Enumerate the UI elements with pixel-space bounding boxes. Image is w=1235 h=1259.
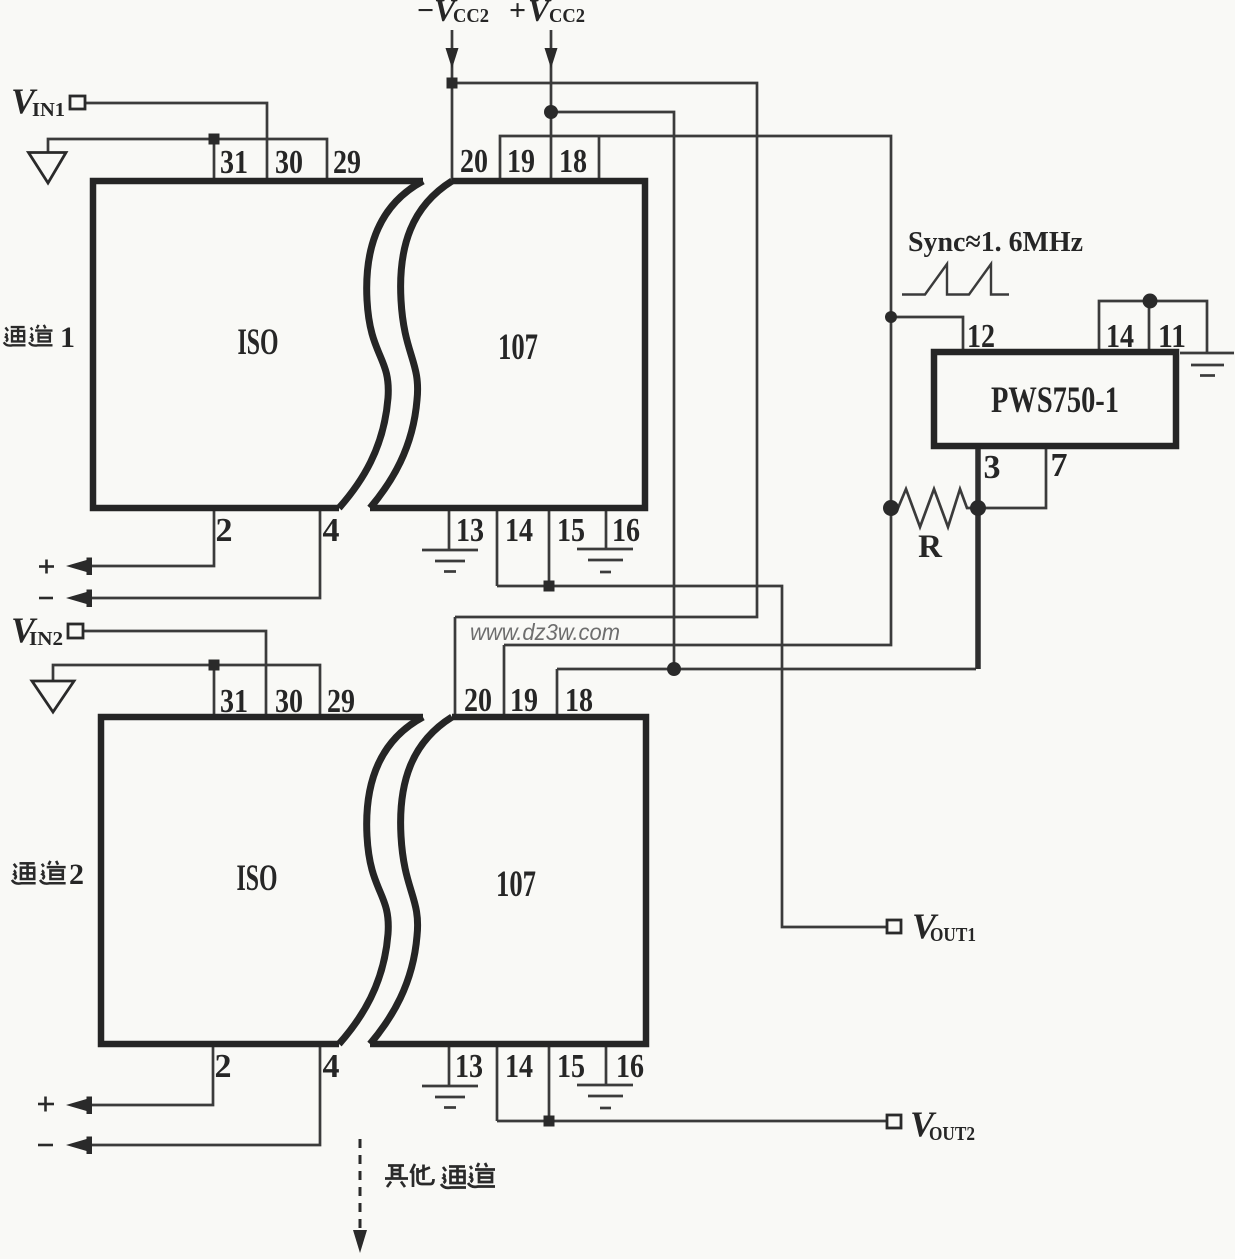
svg-text:12: 12 bbox=[967, 318, 995, 355]
svg-text:13: 13 bbox=[455, 1048, 483, 1085]
svg-text:OUT2: OUT2 bbox=[929, 1123, 975, 1145]
svg-text:31: 31 bbox=[220, 144, 248, 181]
svg-text:107: 107 bbox=[496, 864, 536, 905]
svg-text:29: 29 bbox=[333, 144, 361, 181]
svg-text:20: 20 bbox=[464, 682, 492, 719]
svg-text:CC2: CC2 bbox=[549, 5, 585, 27]
svg-text:IN2: IN2 bbox=[29, 628, 63, 650]
svg-text:11: 11 bbox=[1158, 318, 1186, 355]
svg-text:ISO: ISO bbox=[237, 858, 278, 899]
svg-text:4: 4 bbox=[323, 512, 340, 549]
svg-text:ISO: ISO bbox=[238, 322, 279, 363]
svg-text:18: 18 bbox=[565, 682, 593, 719]
svg-text:19: 19 bbox=[507, 143, 535, 180]
svg-text:15: 15 bbox=[557, 512, 585, 549]
svg-text:4: 4 bbox=[323, 1048, 340, 1085]
svg-text:18: 18 bbox=[559, 143, 587, 180]
svg-text:29: 29 bbox=[327, 683, 355, 720]
svg-text:www.dz3w.com: www.dz3w.com bbox=[470, 619, 620, 645]
svg-text:OUT1: OUT1 bbox=[930, 924, 976, 946]
svg-text:7: 7 bbox=[1051, 447, 1068, 484]
svg-text:15: 15 bbox=[557, 1048, 585, 1085]
svg-text:13: 13 bbox=[456, 512, 484, 549]
svg-text:31: 31 bbox=[220, 683, 248, 720]
svg-text:R: R bbox=[918, 529, 943, 565]
svg-text:+: + bbox=[509, 0, 526, 27]
svg-text:16: 16 bbox=[616, 1048, 644, 1085]
svg-text:2: 2 bbox=[216, 512, 233, 549]
svg-text:30: 30 bbox=[275, 144, 303, 181]
svg-text:14: 14 bbox=[1106, 318, 1134, 355]
svg-text:−: − bbox=[417, 0, 434, 27]
svg-text:2: 2 bbox=[69, 858, 84, 891]
svg-text:2: 2 bbox=[215, 1048, 232, 1085]
svg-text:14: 14 bbox=[505, 1048, 533, 1085]
svg-text:16: 16 bbox=[612, 512, 640, 549]
svg-text:30: 30 bbox=[275, 683, 303, 720]
svg-text:19: 19 bbox=[510, 682, 538, 719]
svg-text:107: 107 bbox=[498, 327, 538, 368]
svg-text:Sync≈1. 6MHz: Sync≈1. 6MHz bbox=[908, 226, 1083, 258]
svg-text:PWS750-1: PWS750-1 bbox=[991, 380, 1119, 421]
svg-text:3: 3 bbox=[984, 449, 1001, 486]
svg-text:IN1: IN1 bbox=[32, 99, 65, 121]
svg-text:14: 14 bbox=[505, 512, 533, 549]
svg-text:CC2: CC2 bbox=[453, 5, 489, 27]
svg-text:20: 20 bbox=[460, 143, 488, 180]
svg-text:1: 1 bbox=[60, 321, 75, 354]
